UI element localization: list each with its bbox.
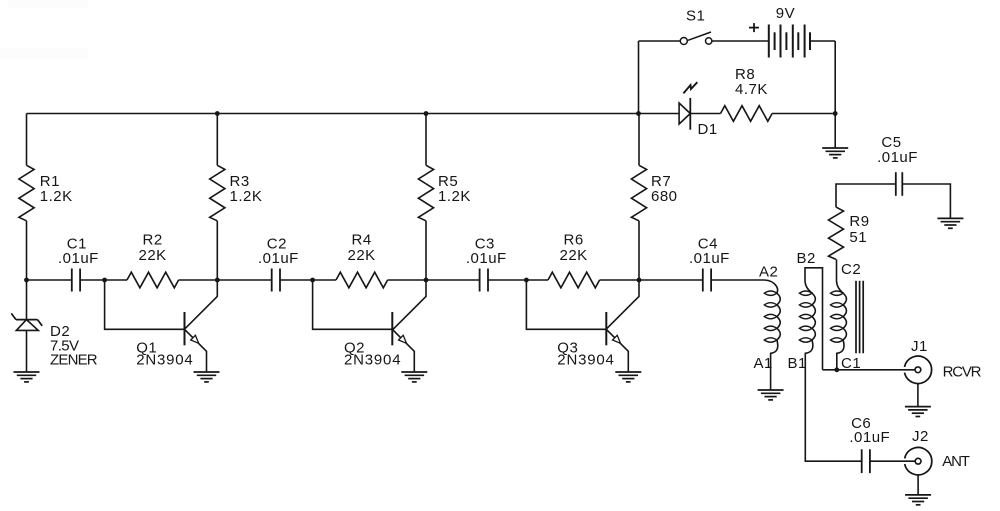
transformer winding A — [765, 280, 778, 293]
node battery-R8 — [833, 111, 838, 116]
wire J2 ground stem — [917, 475, 919, 495]
svg-text:2N3904: 2N3904 — [344, 352, 401, 369]
svg-text:.01uF: .01uF — [849, 429, 890, 446]
node R1-D2-C1 — [24, 278, 29, 283]
capacitor C2 — [271, 269, 273, 292]
capacitor C6 — [861, 449, 863, 473]
svg-text:1.2K: 1.2K — [438, 188, 471, 205]
node Q3 base — [524, 278, 529, 283]
wire C2 to node — [280, 279, 313, 281]
svg-text:R9: R9 — [849, 213, 869, 230]
svg-text:J1: J1 — [911, 338, 928, 355]
wire collector Q3 — [606, 280, 639, 329]
capacitor C4 — [702, 269, 704, 292]
wire R8 to node — [772, 113, 835, 115]
wire node to C2 — [217, 279, 271, 281]
label battery plus — [749, 27, 759, 29]
node rail R3 — [215, 111, 220, 116]
wire C2 riser — [836, 259, 838, 281]
svg-text:.01uF: .01uF — [58, 250, 99, 267]
svg-text:B1: B1 — [788, 355, 807, 372]
svg-text:.01uF: .01uF — [689, 250, 730, 267]
ground A1 — [758, 389, 784, 391]
zener diode D2 — [16, 319, 38, 321]
svg-text:680: 680 — [651, 188, 678, 205]
node Q2 base — [310, 278, 315, 283]
wire to J1 — [823, 369, 916, 371]
ground Q3 — [615, 371, 641, 373]
wire C1 to node — [80, 279, 105, 281]
svg-text:9V: 9V — [776, 5, 795, 22]
svg-text:22K: 22K — [559, 247, 587, 264]
wire C1 down — [837, 340, 844, 370]
wire R1 bottom — [26, 221, 28, 280]
transistor Q2 bar — [391, 312, 393, 345]
emitter arrow Q3 — [613, 335, 621, 343]
transformer winding B — [805, 282, 812, 294]
switch S1 — [680, 38, 687, 45]
svg-text:1.2K: 1.2K — [230, 188, 263, 205]
wire top supply rail — [27, 113, 639, 115]
wire B2 link — [805, 268, 823, 370]
wire C5 to ground — [902, 184, 950, 218]
wire battery out — [810, 40, 835, 42]
resistor R8 — [721, 106, 773, 122]
connector J2 — [905, 448, 932, 475]
svg-text:S1: S1 — [686, 8, 705, 25]
wire collector Q2 — [392, 280, 426, 330]
battery BT1 — [768, 25, 770, 58]
node Q2 collector — [424, 278, 429, 283]
wire S1 riser — [638, 41, 640, 114]
svg-text:RCVR: RCVR — [943, 364, 982, 381]
wire R7 top — [638, 114, 640, 166]
wire R6 to node — [600, 279, 639, 281]
wire B1 down — [805, 340, 861, 461]
wire R4 to node — [388, 279, 426, 281]
ground Q2 — [401, 371, 427, 373]
wire C4 to coil A — [711, 279, 764, 281]
wire D1 to R8 — [690, 113, 720, 115]
ground D2 — [14, 371, 40, 373]
svg-text:4.7K: 4.7K — [735, 81, 768, 98]
wire R1 top — [26, 114, 28, 166]
node Q1 collector — [215, 278, 220, 283]
svg-text:.01uF: .01uF — [877, 149, 918, 166]
wire node to C4 — [639, 279, 703, 281]
node Q1 base — [102, 278, 107, 283]
wire node to R4 — [313, 279, 336, 281]
wire C6 to J2 — [870, 460, 915, 462]
resistor R4 — [336, 272, 388, 288]
svg-text:51: 51 — [849, 229, 867, 246]
transformer core — [855, 281, 857, 354]
wire node to R6 — [526, 279, 548, 281]
ground J2 — [905, 494, 931, 496]
ground battery — [822, 147, 848, 149]
svg-text:.01uF: .01uF — [466, 250, 507, 267]
svg-text:ANT: ANT — [942, 453, 969, 470]
wire C3 to node — [488, 279, 526, 281]
resistor R7 — [631, 165, 646, 221]
wire R2 to node — [179, 279, 218, 281]
transformer winding C — [837, 282, 844, 294]
wire D2 bottom — [26, 330, 28, 372]
resistor R5 — [418, 165, 433, 221]
transistor Q3 bar — [605, 312, 607, 345]
wire S1 to battery — [712, 40, 769, 42]
LED D1 — [679, 103, 690, 124]
wire collector Q1 — [185, 280, 218, 329]
svg-text:.01uF: .01uF — [258, 250, 299, 267]
wire J1 ground stem — [917, 384, 919, 407]
resistor R3 — [210, 165, 225, 221]
wire base Q2 — [313, 280, 393, 329]
wire base Q3 — [526, 280, 606, 329]
capacitor C5 — [895, 172, 897, 196]
resistor R2 — [127, 272, 179, 288]
wire battery ground stem — [834, 114, 836, 149]
wire D2 top — [26, 280, 28, 320]
LED D1 light arrow — [683, 82, 697, 93]
node C1-B2-J1 — [834, 367, 839, 372]
capacitor C1 — [71, 269, 73, 292]
wire R7 bottom — [638, 221, 640, 280]
svg-text:2N3904: 2N3904 — [557, 352, 614, 369]
ground C5 — [937, 217, 963, 219]
svg-text:A2: A2 — [759, 264, 778, 281]
node rail R5 — [424, 111, 429, 116]
ground Q1 — [194, 371, 220, 373]
wire emitter Q3 — [606, 329, 628, 372]
wire node to R2 — [105, 279, 127, 281]
wire rail to C1 — [27, 279, 72, 281]
wire R9 top — [836, 184, 896, 207]
svg-text:B2: B2 — [797, 250, 816, 267]
capacitor C3 — [479, 269, 481, 292]
wire emitter Q2 — [392, 329, 414, 372]
wire R5 top — [425, 114, 427, 166]
emitter arrow Q1 — [191, 335, 199, 343]
ground J1 — [905, 406, 931, 408]
wire R3 bottom — [216, 221, 218, 280]
wire R3 top — [216, 114, 218, 166]
emitter arrow Q2 — [399, 335, 407, 343]
node rail R7-D1 — [636, 111, 641, 116]
svg-text:1.2K: 1.2K — [40, 188, 73, 205]
svg-text:2N3904: 2N3904 — [136, 352, 193, 369]
svg-text:J2: J2 — [912, 428, 929, 445]
wire A1 down — [771, 340, 778, 390]
wire R5 bottom — [425, 221, 427, 280]
resistor R9 — [829, 207, 844, 259]
svg-text:22K: 22K — [138, 247, 166, 264]
svg-text:C2: C2 — [841, 261, 861, 278]
svg-text:D1: D1 — [698, 121, 718, 138]
transistor Q1 bar — [184, 312, 186, 345]
resistor R6 — [548, 272, 600, 288]
wire base Q1 — [105, 280, 185, 329]
resistor R1 — [19, 165, 34, 221]
node Q3 collector — [637, 278, 642, 283]
wire battery drop — [834, 41, 836, 114]
wire node to D1 — [639, 113, 680, 115]
wire emitter Q1 — [185, 329, 207, 372]
connector J1 — [905, 356, 932, 383]
wire to S1 — [639, 40, 681, 42]
svg-text:22K: 22K — [347, 247, 375, 264]
svg-text:ZENER: ZENER — [50, 352, 98, 369]
wire node to C3 — [426, 279, 480, 281]
